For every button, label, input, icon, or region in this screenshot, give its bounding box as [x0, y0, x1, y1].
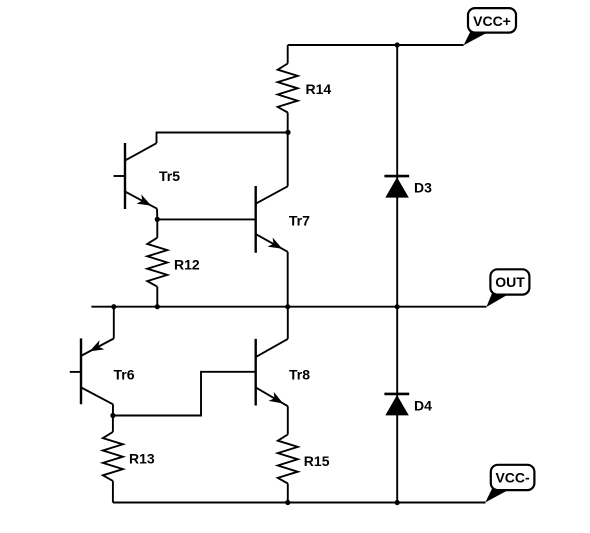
wire diode branch lower (OUT to VCC-)	[396, 307, 398, 503]
svg-text:OUT: OUT	[495, 274, 525, 290]
node top rail / diode branch junction	[395, 42, 400, 47]
svg-text:R14: R14	[306, 81, 332, 97]
svg-text:D4: D4	[414, 397, 432, 413]
wire bottom rail VCC-	[113, 502, 486, 504]
svg-text:R15: R15	[304, 453, 330, 469]
resistor R15	[278, 435, 298, 503]
diode D3	[384, 176, 409, 198]
node OUT rail / diode branch junction	[395, 304, 400, 309]
node Tr5 emitter / Tr7 base / R12 junction	[155, 217, 160, 222]
port flag OUT	[486, 269, 529, 307]
transistor Tr6	[70, 307, 114, 416]
transistor Tr5	[114, 132, 158, 220]
wire Tr6 collector to Tr8 base	[113, 372, 256, 416]
node OUT rail / Tr7 emitter / Tr8 collector junction	[285, 304, 290, 309]
diode D4	[384, 394, 409, 416]
node Tr6 collector / R13 / Tr8 base wire junction	[110, 413, 115, 418]
power flag VCC+	[464, 8, 516, 45]
svg-text:R13: R13	[129, 451, 155, 467]
wire diode branch upper (VCC+ to OUT)	[396, 45, 398, 307]
svg-text:Tr8: Tr8	[289, 367, 310, 383]
node OUT rail / Tr6 emitter junction	[111, 304, 116, 309]
svg-text:R12: R12	[174, 257, 200, 273]
svg-text:VCC-: VCC-	[495, 470, 530, 486]
svg-text:Tr6: Tr6	[114, 367, 135, 383]
node OUT rail / R12 junction	[155, 304, 160, 309]
resistor R14	[278, 45, 298, 132]
power flag VCC-	[485, 465, 534, 503]
wire Tr7 base	[157, 218, 255, 220]
wire OUT rail	[91, 306, 486, 308]
transistor Tr7	[256, 132, 288, 306]
svg-text:Tr5: Tr5	[159, 168, 180, 184]
node bottom rail / diode branch junction	[395, 500, 400, 505]
wire top rail VCC+	[288, 44, 464, 46]
resistor R13	[103, 416, 123, 503]
transistor Tr8	[256, 307, 288, 435]
wire Tr5 collector to R14 bottom	[157, 132, 289, 134]
node bottom rail / R15 junction	[285, 500, 290, 505]
svg-text:Tr7: Tr7	[289, 212, 310, 228]
svg-text:VCC+: VCC+	[473, 13, 511, 29]
node R14 bottom junction	[285, 130, 290, 135]
resistor R12	[147, 219, 167, 306]
svg-text:D3: D3	[414, 180, 432, 196]
